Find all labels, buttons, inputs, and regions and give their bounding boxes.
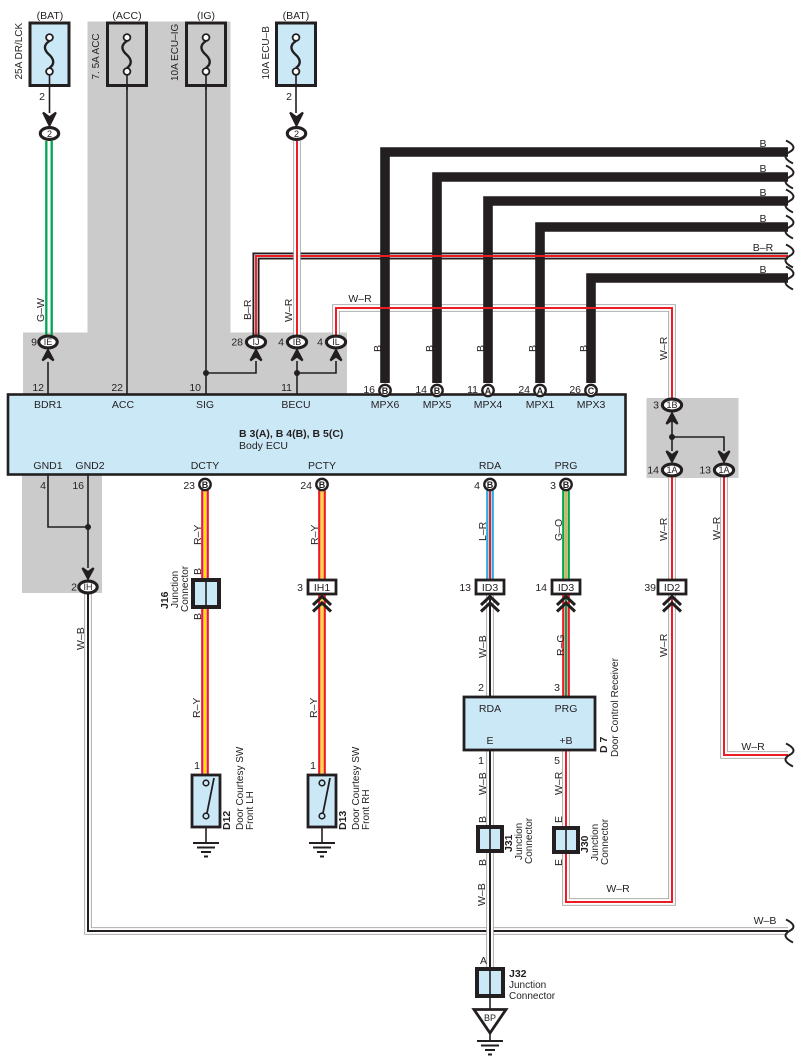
svg-text:J32: J32	[509, 968, 527, 980]
svg-text:W–B: W–B	[477, 635, 489, 658]
svg-text:Connector: Connector	[600, 818, 611, 865]
svg-text:MPX6: MPX6	[371, 399, 400, 411]
svg-text:B: B	[477, 816, 489, 823]
svg-text:14: 14	[535, 582, 547, 594]
svg-text:R–Y: R–Y	[191, 698, 203, 718]
svg-text:W–R: W–R	[658, 517, 670, 541]
svg-text:Door Control Receiver: Door Control Receiver	[610, 657, 621, 757]
svg-text:B: B	[202, 480, 209, 490]
svg-text:39: 39	[644, 582, 656, 594]
svg-text:B: B	[759, 264, 766, 276]
svg-text:2: 2	[39, 91, 45, 103]
svg-text:Connector: Connector	[509, 991, 556, 1002]
svg-text:R–Y: R–Y	[308, 698, 320, 718]
svg-text:W–R: W–R	[658, 633, 670, 657]
svg-text:23: 23	[183, 480, 195, 492]
svg-text:26: 26	[569, 384, 581, 396]
svg-text:Front LH: Front LH	[245, 791, 256, 830]
svg-text:(IG): (IG)	[197, 10, 215, 22]
svg-text:B–R: B–R	[753, 242, 774, 254]
door courtesy switch D12	[192, 775, 220, 827]
svg-text:IL: IL	[332, 337, 340, 347]
svg-text:2: 2	[294, 129, 299, 139]
connector oval IE	[42, 350, 53, 361]
fuse 10A ECU-B	[277, 23, 316, 113]
svg-text:L–R: L–R	[477, 521, 489, 541]
BP triangle ground	[489, 996, 491, 1009]
svg-text:B: B	[434, 386, 441, 396]
svg-text:ID3: ID3	[482, 582, 499, 594]
svg-text:W–R: W–R	[553, 771, 565, 795]
wire: fuse IG to ECU pin 10	[205, 75, 207, 394]
wire W-R D7 +B to J30	[562, 750, 570, 828]
grey shade band above Body ECU	[23, 333, 347, 396]
svg-text:E: E	[553, 816, 565, 823]
arrow down to connector 2	[290, 113, 303, 126]
svg-text:B 3(A), B 4(B), B 5(C): B 3(A), B 4(B), B 5(C)	[239, 428, 343, 440]
connector oval IJ	[250, 350, 261, 361]
chevron ID3 13	[481, 597, 499, 612]
svg-text:Connector: Connector	[524, 817, 535, 864]
svg-text:2: 2	[478, 682, 484, 694]
fuse 7.5A ACC	[108, 23, 147, 90]
svg-text:RDA: RDA	[479, 460, 501, 472]
chevron ID2	[663, 597, 681, 612]
svg-text:+B: +B	[559, 735, 572, 747]
svg-text:10: 10	[189, 382, 201, 394]
junction connector J31	[478, 827, 502, 851]
svg-text:SIG: SIG	[196, 399, 214, 411]
svg-text:B: B	[759, 163, 766, 175]
svg-text:9: 9	[31, 337, 37, 349]
wire B MPX1	[540, 227, 788, 383]
svg-text:10A ECU–IG: 10A ECU–IG	[170, 24, 181, 81]
svg-text:Connector: Connector	[180, 565, 191, 612]
svg-text:1B: 1B	[666, 400, 677, 410]
svg-text:W–R: W–R	[741, 741, 765, 753]
svg-text:ID3: ID3	[558, 582, 575, 594]
svg-text:B: B	[477, 859, 489, 866]
svg-text:PCTY: PCTY	[308, 460, 336, 472]
connector ID3 (13)	[476, 580, 504, 594]
svg-text:3: 3	[554, 682, 560, 694]
svg-text:BECU: BECU	[281, 399, 310, 411]
svg-text:B: B	[382, 386, 389, 396]
chevron ID3 14	[557, 597, 575, 612]
svg-text:B–R: B–R	[242, 299, 254, 320]
svg-text:GND2: GND2	[75, 460, 104, 472]
svg-text:ACC: ACC	[112, 399, 135, 411]
wire B MPX6	[385, 152, 788, 383]
svg-text:W–R: W–R	[711, 516, 723, 540]
svg-text:B: B	[759, 213, 766, 225]
svg-text:B: B	[578, 345, 590, 352]
svg-text:1A: 1A	[718, 465, 729, 475]
svg-text:R–Y: R–Y	[309, 525, 321, 545]
svg-text:G–W: G–W	[35, 298, 47, 322]
svg-text:B: B	[372, 345, 384, 352]
svg-text:22: 22	[111, 382, 123, 394]
svg-text:DCTY: DCTY	[191, 460, 220, 472]
grey shade block 1B/1A area	[647, 398, 739, 478]
grey shade block GND area	[22, 474, 102, 593]
svg-text:MPX5: MPX5	[423, 399, 452, 411]
svg-text:B: B	[424, 345, 436, 352]
svg-text:Body ECU: Body ECU	[239, 440, 288, 452]
wire R-Y PCTY to D13	[319, 491, 324, 776]
grey shade strip (ACC/IG fuse column)	[88, 22, 231, 333]
svg-text:D12: D12	[221, 811, 233, 830]
svg-text:24: 24	[300, 480, 312, 492]
connector oval 1A (13) arrow down	[718, 451, 729, 462]
svg-text:D13: D13	[337, 811, 349, 830]
wire G-W fuse1 to IE	[46, 141, 51, 335]
svg-text:A: A	[480, 955, 487, 967]
svg-text:11: 11	[281, 382, 292, 394]
svg-text:R–Y: R–Y	[192, 525, 204, 545]
svg-text:W–R: W–R	[658, 336, 670, 360]
door courtesy switch D13	[308, 775, 336, 827]
wire G-O PRG to ID3	[563, 491, 568, 581]
wire W-B horizontal from IH to right edge (tube)	[88, 594, 788, 931]
svg-text:RDA: RDA	[479, 703, 501, 715]
svg-text:(BAT): (BAT)	[283, 10, 310, 22]
connector oval IH with arrow down	[82, 568, 93, 579]
svg-text:1: 1	[194, 760, 200, 772]
junction dot GND	[85, 524, 91, 530]
svg-text:PRG: PRG	[555, 460, 578, 472]
fuse 10A ECU-IG	[187, 23, 226, 90]
ground BP	[477, 1033, 503, 1055]
connector oval 1B with arrow up	[666, 413, 677, 424]
svg-text:1A: 1A	[666, 465, 677, 475]
svg-text:10A ECU–B: 10A ECU–B	[261, 26, 272, 80]
svg-text:E: E	[486, 735, 493, 747]
wire W-B ID3 to D7 RDA	[486, 594, 494, 697]
wire B MPX4	[488, 201, 788, 383]
svg-text:2: 2	[286, 91, 292, 103]
svg-text:W–B: W–B	[477, 772, 489, 795]
connector ID2 (39)	[658, 580, 686, 594]
connector oval 2 (left)	[40, 128, 58, 140]
svg-text:G–O: G–O	[553, 519, 565, 541]
svg-text:3: 3	[653, 400, 659, 412]
wire: GND2	[87, 474, 89, 568]
svg-text:25A DR/LCK: 25A DR/LCK	[14, 22, 25, 79]
svg-text:B: B	[319, 480, 326, 490]
junction dot SIG	[203, 370, 209, 376]
connector oval 2 (right)	[287, 128, 305, 140]
svg-text:MPX1: MPX1	[526, 399, 555, 411]
wire R-G ID3 to D7 PRG	[563, 594, 568, 697]
connector oval IL	[330, 350, 341, 361]
svg-text:4: 4	[278, 337, 284, 349]
svg-text:13: 13	[459, 582, 471, 594]
svg-text:A: A	[537, 386, 544, 396]
svg-text:D 7: D 7	[598, 737, 610, 754]
svg-text:16: 16	[363, 384, 375, 396]
svg-text:1: 1	[310, 760, 316, 772]
connector oval IB	[291, 350, 302, 361]
wire W-R from IL up and over to 1B (tube)	[336, 308, 672, 398]
connector oval 1A (14) arrow down	[666, 451, 677, 462]
wire: fuse ACC to ECU pin 22	[126, 75, 128, 394]
svg-text:B: B	[527, 345, 539, 352]
svg-text:IB: IB	[293, 337, 302, 347]
wire: GND1	[48, 474, 88, 527]
svg-text:(ACC): (ACC)	[112, 10, 141, 22]
svg-text:R–G: R–G	[555, 634, 567, 656]
svg-text:MPX3: MPX3	[577, 399, 606, 411]
Body ECU box B3(A),B4(B),B5(C)	[8, 395, 626, 475]
svg-text:4: 4	[40, 480, 46, 492]
svg-text:1: 1	[478, 755, 484, 767]
svg-text:4: 4	[317, 337, 323, 349]
connector IH1	[308, 580, 336, 594]
ECU top pin circles MPX	[363, 384, 596, 396]
wire W-R fuse4 to IB	[293, 141, 301, 335]
svg-text:BDR1: BDR1	[34, 399, 62, 411]
svg-text:PRG: PRG	[555, 703, 578, 715]
arrow down to connector 2	[43, 113, 56, 126]
svg-text:12: 12	[32, 382, 44, 394]
svg-text:7. 5A ACC: 7. 5A ACC	[91, 33, 102, 79]
wire B MPX5	[437, 177, 788, 383]
svg-text:W–B: W–B	[754, 915, 777, 927]
svg-text:IH1: IH1	[314, 582, 331, 594]
wire R-Y DCTY to D12	[202, 491, 207, 776]
svg-text:3: 3	[550, 480, 556, 492]
wire: IL branch to BECU line	[297, 361, 336, 373]
fuse 25A DR/LCK	[30, 23, 69, 113]
svg-text:11: 11	[467, 384, 478, 396]
svg-text:IE: IE	[44, 337, 53, 347]
svg-text:14: 14	[415, 384, 427, 396]
wire: 1B to 1A branch	[671, 413, 673, 451]
svg-text:ID2: ID2	[664, 582, 681, 594]
wire: IJ branch to IG line	[206, 361, 256, 373]
break marks right edge	[785, 141, 793, 943]
svg-text:MPX4: MPX4	[474, 399, 503, 411]
wire: IE to ECU pin 12	[47, 362, 49, 394]
svg-text:IH: IH	[84, 582, 93, 592]
wire: IB to ECU pin 11	[296, 361, 298, 394]
wire W-B D7 E to J31 to J32	[486, 750, 494, 969]
svg-text:B: B	[563, 480, 570, 490]
svg-text:GND1: GND1	[33, 460, 62, 472]
svg-text:B: B	[475, 345, 487, 352]
D7 Door Control Receiver	[464, 697, 595, 750]
junction dot BECU	[294, 370, 300, 376]
svg-text:BP: BP	[484, 1013, 496, 1023]
wire B-R from IJ to right edge	[253, 253, 788, 335]
wire W-R 1A(13) to right edge	[724, 477, 788, 755]
svg-text:W–B: W–B	[476, 883, 488, 906]
junction connector J32	[477, 969, 503, 996]
svg-text:B: B	[192, 568, 204, 575]
svg-text:A: A	[485, 386, 492, 396]
svg-text:W–B: W–B	[75, 627, 87, 650]
chevron IH1	[313, 597, 331, 612]
svg-text:Junction: Junction	[509, 980, 546, 991]
wire L-R RDA to ID3	[487, 491, 492, 581]
wire B MPX3	[591, 278, 788, 383]
svg-text:E: E	[553, 859, 565, 866]
svg-text:14: 14	[647, 465, 659, 477]
svg-text:24: 24	[518, 384, 530, 396]
ground D12	[193, 827, 219, 857]
svg-text:2: 2	[71, 582, 77, 594]
junction connector J30	[554, 828, 578, 852]
svg-text:B: B	[759, 187, 766, 199]
junction dot 1B	[669, 434, 675, 440]
svg-text:B: B	[487, 480, 494, 490]
svg-text:W–R: W–R	[283, 298, 295, 322]
svg-text:4: 4	[474, 480, 480, 492]
ground D13	[309, 827, 335, 857]
svg-text:2: 2	[47, 129, 52, 139]
svg-text:IJ: IJ	[252, 337, 259, 347]
svg-text:B: B	[192, 613, 204, 620]
svg-text:16: 16	[72, 480, 84, 492]
wire W-R 1A(14) to ID2	[668, 477, 676, 580]
svg-text:W–R: W–R	[348, 293, 372, 305]
svg-text:13: 13	[699, 465, 711, 477]
svg-text:5: 5	[554, 755, 560, 767]
svg-text:3: 3	[297, 582, 303, 594]
svg-text:Front RH: Front RH	[361, 789, 372, 830]
junction connector J16	[193, 580, 219, 607]
connector ID3 (14)	[552, 580, 580, 594]
svg-text:C: C	[588, 386, 595, 396]
svg-text:(BAT): (BAT)	[37, 10, 64, 22]
red stripe of W-R over black wires	[336, 308, 672, 398]
svg-text:B: B	[759, 138, 766, 150]
svg-text:28: 28	[231, 337, 243, 349]
wire W-R J30 to ID2	[566, 594, 672, 902]
svg-text:W–R: W–R	[606, 883, 630, 895]
